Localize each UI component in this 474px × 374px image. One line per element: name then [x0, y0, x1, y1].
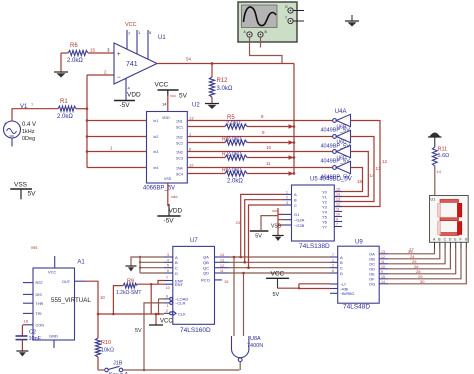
svg-text:2: 2: [332, 264, 334, 268]
svg-text:12: 12: [220, 264, 224, 268]
svg-text:5V: 5V: [135, 328, 142, 334]
wire QB to U5 B: [236, 200, 284, 264]
wire U2 out3: [176, 147, 192, 161]
svg-text:15: 15: [336, 188, 340, 192]
chip U9 74LS48D: [330, 240, 388, 311]
wire op-amp output: [157, 57, 294, 65]
svg-text:-5V: -5V: [164, 218, 175, 225]
svg-text:~CLR: ~CLR: [175, 301, 185, 306]
svg-text:2.0kΩ: 2.0kΩ: [57, 114, 73, 120]
wire resistor R6 to feedback bus: [247, 171, 294, 176]
svg-text:11: 11: [220, 269, 224, 273]
svg-text:vcc: vcc: [272, 208, 278, 213]
svg-text:B: B: [340, 260, 343, 265]
svg-text:6: 6: [167, 269, 169, 273]
svg-text:1: 1: [286, 190, 288, 194]
op-amp U1 741: [114, 22, 166, 101]
svg-text:54: 54: [186, 57, 192, 62]
wire to U2 in4: [87, 167, 147, 169]
svg-text:11: 11: [266, 161, 271, 166]
svg-text:OUT: OUT: [62, 280, 71, 284]
wire resistor R5 to feedback bus: [247, 124, 294, 129]
svg-text:C2: C2: [29, 330, 36, 336]
wire QD bus: [229, 272, 330, 274]
svg-text:2.0kΩ: 2.0kΩ: [226, 121, 241, 127]
svg-text:12: 12: [336, 203, 340, 207]
svg-text:7: 7: [336, 223, 338, 227]
svg-text:9: 9: [336, 218, 338, 222]
svg-text:D: D: [175, 271, 178, 276]
wire inverter U6B input to U5 Y2: [334, 137, 374, 202]
wire R9 to ENP/ENT: [137, 276, 170, 314]
svg-text:+: +: [4, 121, 7, 126]
wire OG to segment G: [388, 249, 466, 284]
wire U2 out4: [176, 163, 194, 177]
svg-text:U6B: U6B: [337, 125, 347, 131]
svg-text:9: 9: [381, 270, 383, 274]
svg-text:QD: QD: [203, 271, 209, 276]
svg-text:CON: CON: [36, 323, 45, 327]
svg-text:~G2B: ~G2B: [294, 223, 305, 228]
svg-text:7400N: 7400N: [247, 343, 263, 349]
svg-text:VSS: VSS: [271, 224, 282, 230]
wire pin2: [87, 70, 114, 76]
ground (U5): [271, 224, 284, 242]
capacitor C2: [16, 319, 42, 352]
svg-text:DIS: DIS: [36, 293, 43, 297]
svg-text:+: +: [117, 52, 121, 58]
wire inverter U6C input to U5 Y1: [334, 152, 368, 197]
svg-text:U5 4049BD_5V: U5 4049BD_5V: [310, 177, 352, 183]
svg-text:VDD: VDD: [127, 92, 141, 99]
svg-text:A1: A1: [77, 260, 85, 266]
svg-text:VSS: VSS: [14, 182, 28, 189]
svg-text:5V: 5V: [179, 93, 188, 100]
power VDD -5V (U2): [157, 183, 182, 225]
svg-text:SC1: SC1: [176, 126, 183, 130]
svg-text:1N3: 1N3: [176, 151, 183, 155]
svg-text:U6C: U6C: [337, 140, 347, 146]
svg-text:QC: QC: [203, 265, 209, 270]
svg-text:3: 3: [167, 253, 169, 257]
svg-text:U2: U2: [192, 103, 200, 109]
power VCC 5V (CLK): [135, 314, 173, 334]
NAND gate U8A 7400N: [232, 336, 264, 370]
svg-text:13: 13: [336, 198, 340, 202]
wire QD to NAND: [242, 272, 245, 336]
svg-text:U1: U1: [158, 35, 166, 41]
oscilloscope XSC1: [238, 2, 304, 42]
wire U2 switch 2 output: [187, 130, 332, 137]
svg-text:14: 14: [370, 173, 376, 178]
svg-text:18: 18: [24, 319, 29, 324]
svg-text:15: 15: [381, 275, 385, 279]
svg-text:R6: R6: [70, 43, 78, 49]
power VCC (U9): [266, 271, 330, 298]
svg-text:4: 4: [167, 258, 169, 262]
svg-text:15: 15: [357, 179, 363, 184]
wire U2 out2: [176, 132, 192, 146]
svg-text:vcc: vcc: [170, 93, 176, 98]
wire QA bus: [229, 256, 330, 258]
svg-text:10kΩ: 10kΩ: [101, 348, 114, 354]
wire resistor R8 to feedback bus: [247, 140, 294, 145]
wire OA to segment A: [388, 249, 435, 254]
svg-text:2: 2: [286, 196, 288, 200]
svg-text:RCO: RCO: [201, 278, 210, 283]
svg-text:R11: R11: [438, 147, 448, 153]
svg-text:2.0kΩ: 2.0kΩ: [227, 152, 242, 158]
wire scope channel B stub: [260, 37, 262, 47]
net labels 12-15: [357, 159, 388, 184]
resistor R11: [432, 147, 449, 196]
7-segment display U10: [430, 196, 469, 249]
wire feedback bus: [293, 64, 296, 175]
wire QB bus: [229, 261, 330, 263]
svg-text:14: 14: [336, 193, 340, 197]
svg-text:1: 1: [332, 258, 334, 262]
svg-text:1: 1: [167, 304, 169, 308]
wire clear loop: [143, 295, 240, 372]
svg-text:QB: QB: [203, 260, 209, 265]
svg-text:VDD: VDD: [169, 208, 183, 215]
resistor R1: [12, 99, 87, 121]
svg-text:2.0kΩ: 2.0kΩ: [67, 58, 83, 64]
svg-text:GND: GND: [49, 334, 58, 339]
resistor R7 2.0k: [187, 152, 247, 161]
svg-text:12: 12: [382, 159, 388, 164]
svg-text:3.0kΩ: 3.0kΩ: [217, 86, 233, 92]
svg-text:12: 12: [189, 163, 194, 168]
svg-text:C: C: [294, 203, 297, 208]
wire QC to U5 C: [247, 205, 283, 269]
svg-text:R10: R10: [101, 340, 111, 346]
net label 27: [409, 248, 414, 253]
wire inverter U4A input to U5 Y3: [334, 121, 380, 207]
svg-text:D: D: [340, 271, 343, 276]
wire OB to segment B: [388, 249, 440, 259]
svg-text:C: C: [340, 266, 343, 271]
wire to U2 in3: [87, 146, 147, 152]
svg-text:A: A: [294, 192, 297, 197]
svg-text:10: 10: [100, 295, 105, 300]
inverter U6B 4049: [321, 125, 351, 150]
svg-text:10: 10: [336, 213, 340, 217]
svg-text:in4: in4: [154, 166, 159, 170]
svg-text:R9: R9: [127, 279, 134, 285]
ground (U7 inputs): [126, 266, 137, 272]
svg-text:5: 5: [167, 264, 169, 268]
resistor R8 2.0k: [187, 137, 247, 146]
svg-text:12: 12: [381, 255, 385, 259]
svg-text:U4A: U4A: [335, 109, 347, 115]
svg-text:7: 7: [332, 253, 334, 257]
power VDD -5V: [114, 92, 141, 110]
resistor R9: [113, 279, 141, 315]
svg-text:TRI: TRI: [36, 312, 42, 316]
svg-text:1N2: 1N2: [176, 136, 183, 140]
svg-text:13: 13: [220, 259, 224, 263]
wire to U2 in2: [87, 136, 147, 138]
chip U5 74LS138D: [283, 177, 352, 251]
svg-text:U9: U9: [355, 240, 363, 246]
svg-text:0Deg: 0Deg: [22, 136, 35, 142]
svg-text:U1: U1: [431, 198, 436, 202]
svg-text:5.6Ω: 5.6Ω: [438, 153, 450, 159]
svg-text:555_VIRTUAL: 555_VIRTUAL: [51, 297, 91, 304]
svg-text:−: −: [117, 75, 121, 81]
svg-text:3: 3: [286, 201, 288, 205]
svg-text:~RBI: ~RBI: [340, 287, 348, 291]
svg-text:74LS48D: 74LS48D: [343, 304, 370, 311]
switch J1B: [98, 361, 144, 374]
wire QA to NAND: [233, 256, 236, 336]
svg-text:SC4: SC4: [176, 173, 183, 177]
svg-text:5V: 5V: [28, 191, 37, 198]
svg-text:1N4: 1N4: [176, 167, 183, 171]
svg-text:SC3: SC3: [176, 157, 183, 161]
svg-text:OG: OG: [369, 282, 375, 287]
svg-text:A: A: [340, 255, 343, 260]
svg-text:13: 13: [189, 116, 194, 121]
svg-text:VCC: VCC: [48, 270, 57, 275]
svg-text:7: 7: [166, 276, 168, 280]
svg-text:R12: R12: [217, 78, 229, 84]
svg-text:VCC: VCC: [160, 319, 173, 325]
svg-text:10: 10: [166, 286, 170, 290]
wire 555 OUT: [85, 281, 164, 338]
svg-text:VCC: VCC: [155, 82, 169, 89]
svg-text:10: 10: [381, 265, 385, 269]
svg-text:27: 27: [409, 248, 414, 253]
svg-text:741: 741: [126, 61, 138, 68]
svg-text:THR: THR: [36, 302, 44, 306]
svg-text:14: 14: [220, 253, 224, 257]
svg-text:ENT: ENT: [175, 282, 184, 287]
svg-text:2.0kΩ: 2.0kΩ: [227, 179, 243, 185]
svg-text:15: 15: [224, 279, 229, 284]
svg-text:in2: in2: [154, 135, 159, 139]
wire U5 enable (vcc): [272, 208, 283, 236]
svg-text:VCC: VCC: [271, 271, 285, 278]
wire OD to segment D: [388, 249, 450, 269]
svg-text:14: 14: [381, 280, 385, 284]
svg-text:vss: vss: [31, 245, 37, 250]
wire scope channel A: [250, 37, 283, 63]
svg-text:-5V: -5V: [120, 102, 131, 109]
svg-text:in3: in3: [154, 150, 159, 154]
svg-text:2: 2: [166, 309, 168, 313]
svg-text:30: 30: [420, 279, 425, 284]
inverter U6C 4049: [321, 140, 351, 165]
svg-text:A: A: [175, 255, 178, 260]
wire resistor R7 to feedback bus: [247, 155, 294, 160]
chip U2 4066BP_5V: [143, 103, 200, 192]
svg-text:1.2kΩ-SMT: 1.2kΩ-SMT: [116, 290, 141, 296]
svg-text:2.0kΩ: 2.0kΩ: [227, 168, 242, 174]
svg-text:B: B: [175, 260, 178, 265]
source V1: [4, 102, 37, 147]
svg-text:9: 9: [166, 295, 168, 299]
svg-text:6: 6: [332, 269, 334, 273]
svg-text:U6D: U6D: [337, 156, 347, 162]
svg-text:Y7: Y7: [322, 224, 328, 229]
svg-text:SC2: SC2: [176, 142, 183, 146]
svg-text:10: 10: [266, 145, 272, 150]
svg-text:CLK: CLK: [178, 312, 186, 317]
svg-text:14: 14: [437, 169, 442, 174]
svg-text:VSS: VSS: [164, 177, 172, 181]
resistor R12: [209, 64, 232, 104]
svg-text:14: 14: [162, 102, 167, 107]
svg-text:1kHz: 1kHz: [22, 129, 35, 135]
power 5V (U5): [250, 216, 278, 240]
power VCC arrow (R11): [428, 133, 442, 148]
svg-text:11: 11: [336, 208, 340, 212]
svg-text:J1B: J1B: [113, 361, 123, 367]
power VCC 5V (U2): [155, 82, 188, 112]
svg-text:4066BP_5V: 4066BP_5V: [143, 186, 175, 192]
svg-text:in1: in1: [154, 119, 159, 123]
svg-text:13: 13: [376, 166, 382, 171]
svg-text:RST: RST: [36, 281, 44, 285]
ground: [54, 53, 68, 78]
wire U2 switch 3 output: [187, 145, 332, 152]
wire QA to U5 A: [239, 194, 283, 258]
wire U7 inputs to ground: [131, 256, 164, 273]
resistor R5 2.0k: [187, 115, 247, 129]
svg-text:11: 11: [381, 260, 385, 264]
svg-text:QA: QA: [203, 255, 209, 260]
svg-text:vdd: vdd: [171, 194, 177, 199]
svg-text:1N1: 1N1: [176, 120, 183, 124]
svg-text:5V: 5V: [273, 292, 280, 298]
wire input bus: [86, 75, 89, 168]
svg-text:VCC: VCC: [125, 22, 137, 28]
svg-text:~BI/RBO: ~BI/RBO: [340, 292, 354, 296]
svg-text:B: B: [294, 198, 297, 203]
svg-text:74LS138D: 74LS138D: [299, 243, 330, 250]
555 timer A1: [23, 245, 91, 348]
svg-text:C: C: [175, 266, 178, 271]
ground (top right): [345, 15, 359, 27]
ground (C2): [16, 351, 28, 357]
svg-text:0.4 V: 0.4 V: [22, 122, 36, 128]
svg-text:F: F: [460, 238, 462, 242]
svg-text:23: 23: [236, 220, 241, 225]
wire OC to segment C: [388, 249, 445, 264]
resistor R10: [95, 338, 114, 370]
svg-text:5V: 5V: [255, 234, 262, 240]
chip U7 74LS160D: [164, 238, 229, 334]
wire OE to segment E: [388, 249, 456, 274]
svg-text:74LS160D: 74LS160D: [180, 327, 211, 334]
power VSS 5V: [10, 182, 36, 200]
resistor R6: [61, 43, 114, 64]
ground (R12): [205, 104, 219, 110]
svg-text:~G2A: ~G2A: [294, 218, 305, 223]
svg-text:13: 13: [381, 250, 385, 254]
inverter U4A 4049: [321, 109, 351, 134]
svg-text:~LT: ~LT: [340, 283, 347, 287]
wire U2 out1: [176, 116, 194, 130]
svg-text:2.0kΩ: 2.0kΩ: [227, 137, 242, 143]
svg-text:G1: G1: [294, 212, 300, 217]
inverter U6D 4049: [321, 156, 351, 181]
svg-text:U7: U7: [190, 238, 198, 244]
resistor R6 2.0k: [187, 168, 247, 185]
wire OF to segment F: [388, 249, 461, 279]
svg-text:U8A: U8A: [250, 336, 261, 342]
wire to U2 in1: [87, 120, 147, 122]
svg-text:T: T: [285, 16, 287, 20]
svg-text:VDD: VDD: [162, 116, 170, 120]
svg-text:R1: R1: [60, 99, 68, 105]
svg-text:15: 15: [90, 48, 96, 53]
wire U2 switch 1 output: [187, 114, 332, 121]
svg-text:G: G: [285, 5, 288, 9]
wire U2 switch 4 output: [187, 161, 332, 168]
svg-text:10nF: 10nF: [29, 336, 42, 342]
svg-text:G: G: [465, 238, 468, 242]
wire inverter U6D input to U5 Y0: [334, 168, 362, 192]
wire QC bus: [229, 267, 330, 269]
